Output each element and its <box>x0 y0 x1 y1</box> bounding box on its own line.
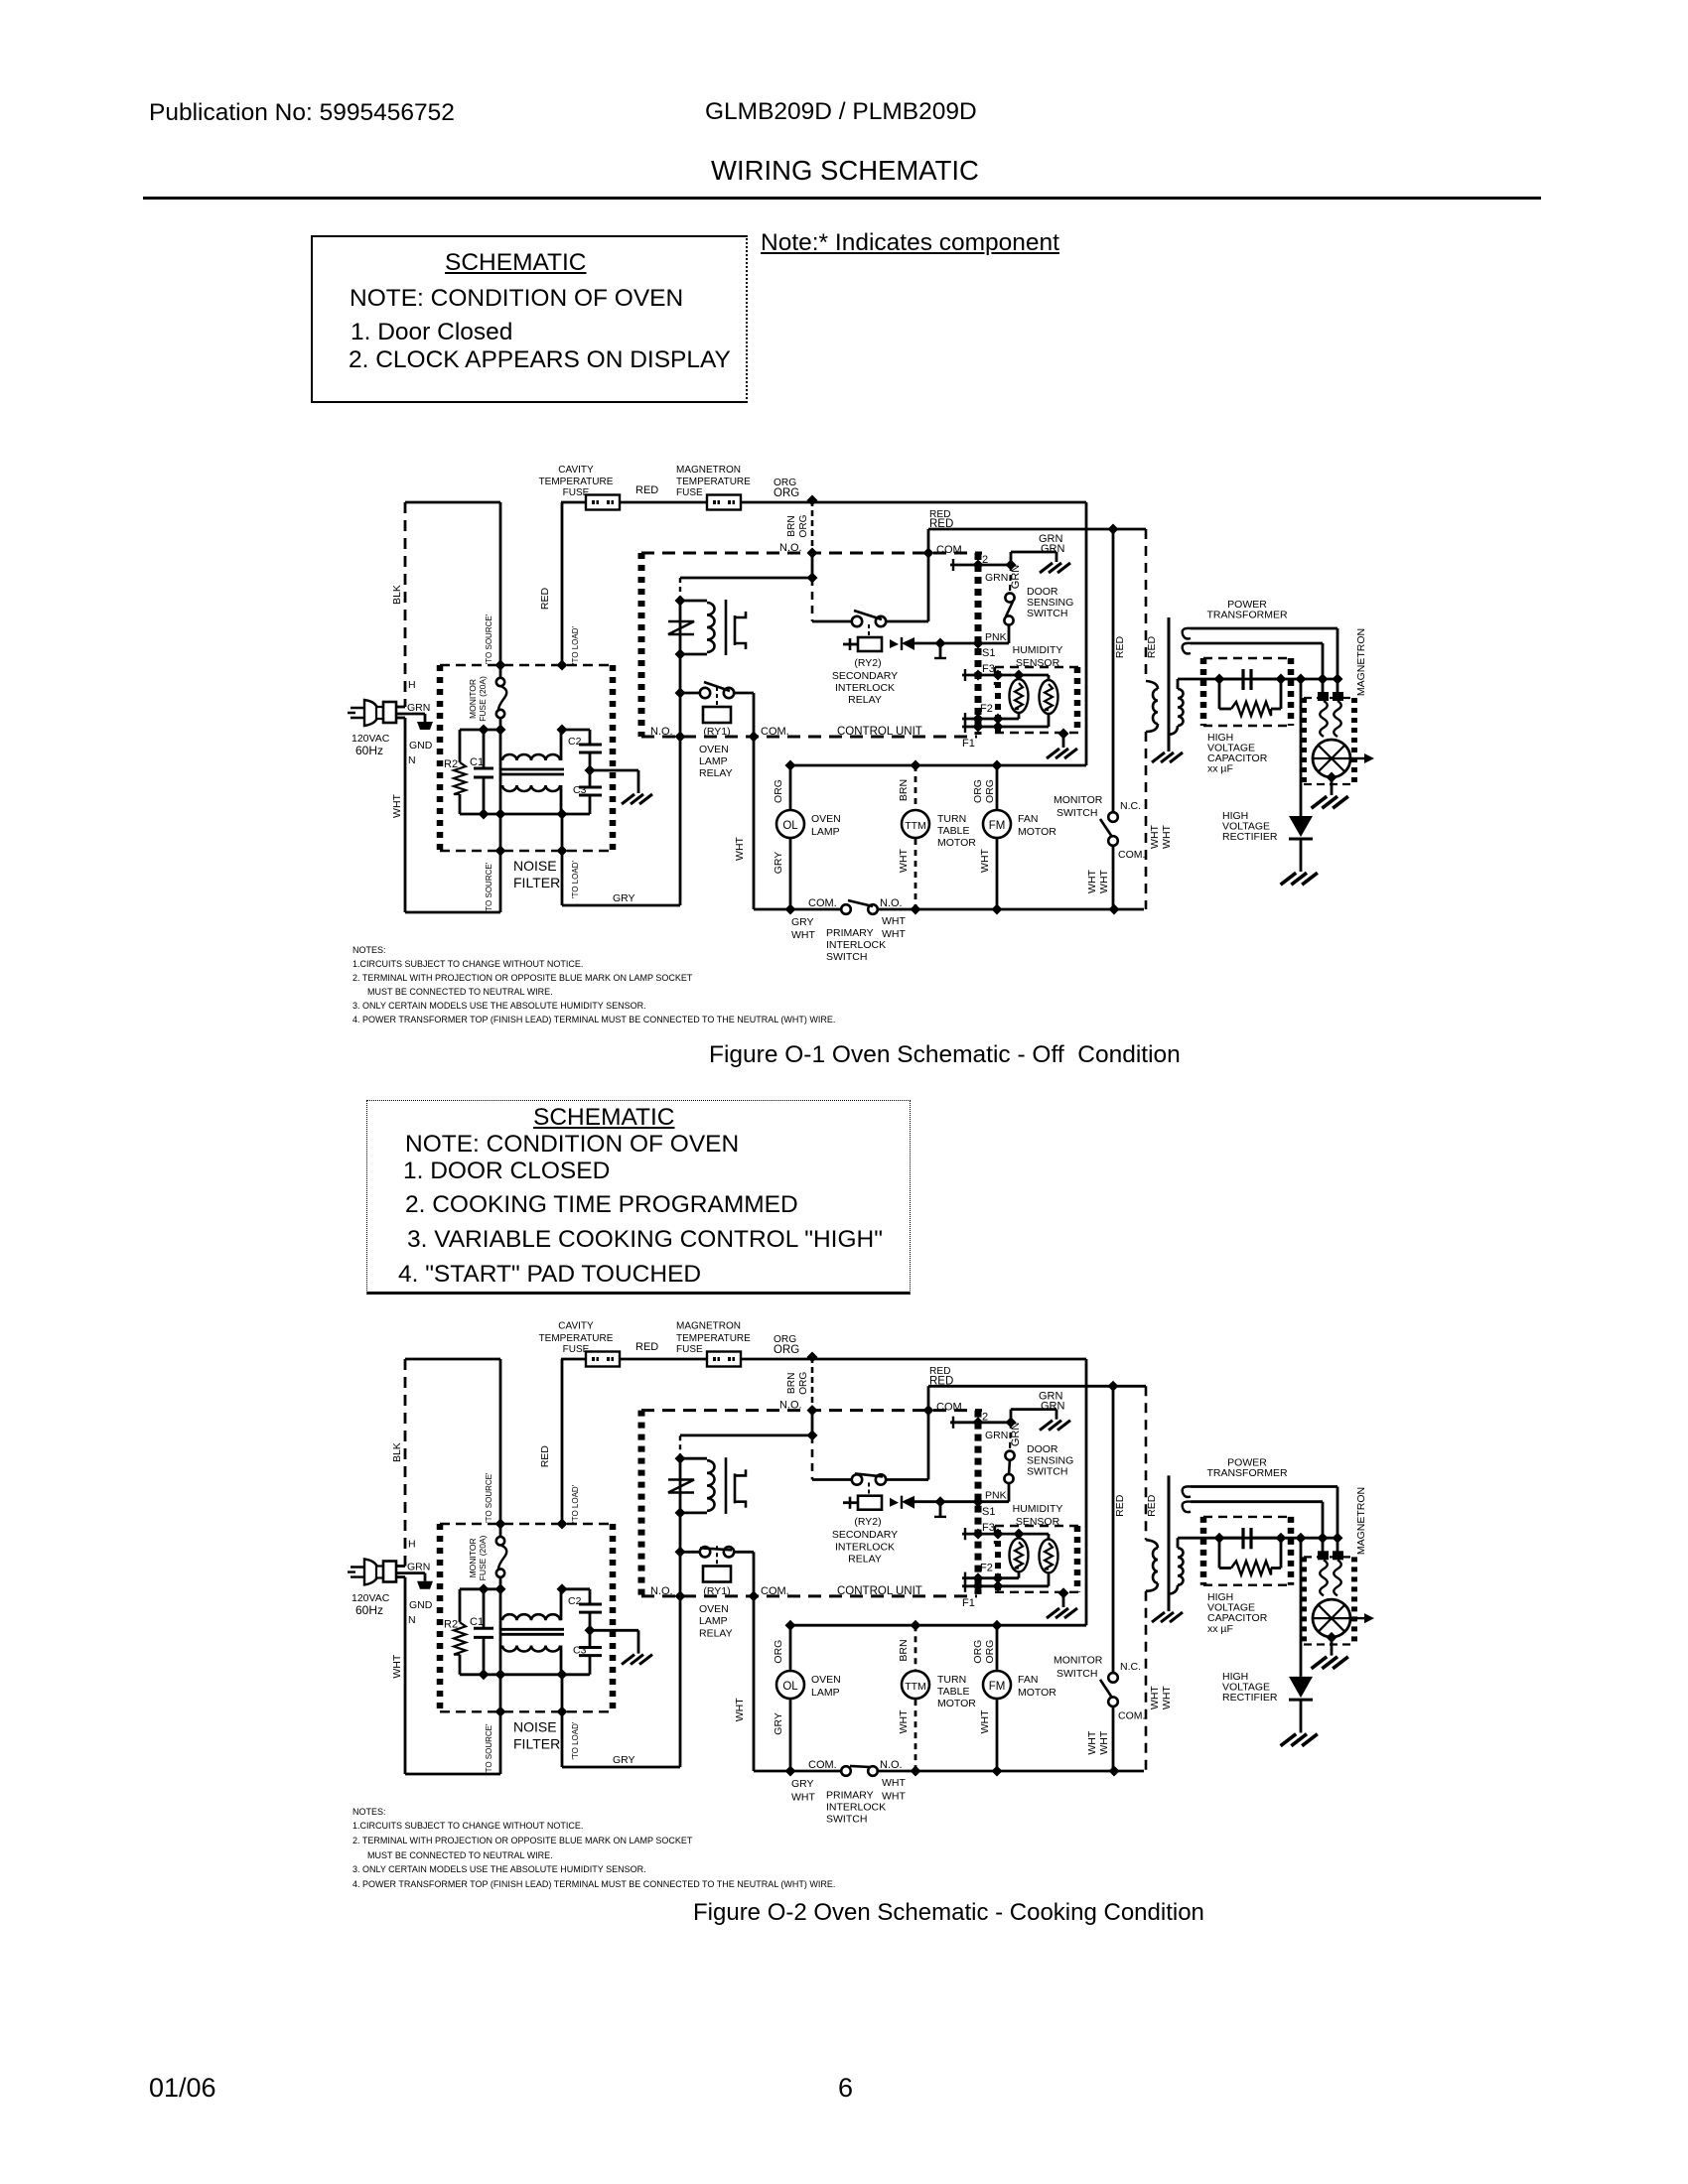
svg-text:NOISE: NOISE <box>513 1719 557 1735</box>
wire GRY segment (2) <box>562 1766 680 1769</box>
wire top supply line left (2) <box>405 1358 500 1361</box>
wire top supply line left <box>405 501 500 504</box>
svg-text:WHT: WHT <box>1086 869 1098 892</box>
svg-text:GRY: GRY <box>773 852 784 875</box>
note box schematic conditions (cooking) <box>366 1100 911 1295</box>
node BRN-ORG branch (2) <box>807 1430 818 1440</box>
connector column <box>975 553 982 735</box>
wire magnetron ground stem (2) <box>1331 1637 1334 1655</box>
node F1 a (2) <box>973 1580 984 1591</box>
footer date <box>149 2075 216 2102</box>
node FM rail (2) <box>992 1620 1003 1631</box>
svg-text:RED: RED <box>539 1445 551 1468</box>
ground door switch (2) <box>1040 1421 1070 1431</box>
wire plug N stub <box>395 717 405 720</box>
wire monitor to rail (2) <box>1112 1706 1115 1771</box>
switch monitor contact COM (2) <box>1108 1697 1118 1706</box>
svg-text:TEMPERATURE: TEMPERATURE <box>539 477 614 487</box>
svg-text:SWITCH: SWITCH <box>1027 608 1067 619</box>
svg-text:H: H <box>408 1538 416 1550</box>
svg-text:RED: RED <box>539 587 551 610</box>
transformer filament winding <box>1183 628 1191 639</box>
turntable motor TTM (2) <box>902 1671 929 1699</box>
thermistor left (2) <box>1010 1538 1029 1571</box>
filter transformer core (2) <box>500 1628 564 1631</box>
svg-text:TEMPERATURE: TEMPERATURE <box>676 1333 751 1344</box>
ground humidity sensor (2) <box>1047 1608 1077 1618</box>
filter transformer winding bottom <box>499 760 502 814</box>
wire to-source vertical upper (2) <box>499 1359 502 1524</box>
svg-text:'TO SOURCE': 'TO SOURCE' <box>485 1723 493 1774</box>
svg-text:RECTIFIER: RECTIFIER <box>1222 831 1278 843</box>
svg-text:COM.: COM. <box>808 897 837 909</box>
wire to-source vertical lower (2) <box>499 1675 502 1774</box>
wire FM upper (2) <box>996 1625 999 1670</box>
noise filter box (2) <box>440 1523 613 1525</box>
wire PNK line <box>940 642 1009 645</box>
node COM top (2) <box>923 1405 934 1416</box>
control unit box bottom edge (2) <box>641 1594 977 1597</box>
connector column 2 <box>995 671 1001 735</box>
svg-text:WHT: WHT <box>1161 1686 1173 1709</box>
svg-text:GRY: GRY <box>791 1778 814 1790</box>
switch RY1 contact left <box>700 688 710 698</box>
svg-text:MONITOR: MONITOR <box>468 679 478 719</box>
svg-text:ORG: ORG <box>773 779 784 803</box>
wire RED RED line <box>928 528 1146 531</box>
node HV cap left <box>1214 674 1225 685</box>
relay RY1 coil box <box>703 707 731 723</box>
wire filament drop 2 <box>1322 643 1325 693</box>
capacitor HV <box>1219 678 1243 681</box>
svg-text:PNK: PNK <box>985 1490 1007 1502</box>
svg-text:'TO LOAD': 'TO LOAD' <box>571 626 580 665</box>
svg-text:FUSE: FUSE <box>563 487 590 498</box>
ground transformer <box>1152 752 1183 762</box>
svg-text:BRN: BRN <box>898 779 910 801</box>
wire FM lower <box>996 839 999 909</box>
wire filter ground branch (2) <box>590 1629 638 1632</box>
ground humidity sensor <box>1047 749 1077 758</box>
svg-text:F1: F1 <box>962 1597 975 1609</box>
wire COM vertical (2) <box>927 1386 930 1410</box>
node N.O. top (2) <box>807 1405 818 1416</box>
transformer core (2) <box>1168 1475 1171 1611</box>
wire TTM lower <box>914 839 917 909</box>
wire thermistor left bottom (2) <box>1018 1572 1021 1578</box>
link RY1 blade-coil (2) <box>716 1546 718 1566</box>
switch primary interlock contact right <box>868 904 878 914</box>
svg-text:F2: F2 <box>980 1563 993 1574</box>
node relay coil top <box>675 596 686 607</box>
svg-text:MONITOR: MONITOR <box>468 1538 478 1577</box>
control unit box left edge (2) <box>638 1411 645 1596</box>
wire motor rail (2) <box>790 1624 1086 1627</box>
svg-text:MOTOR: MOTOR <box>937 837 976 849</box>
wire filter ground branch <box>590 769 638 772</box>
caption figure O-1 <box>709 1043 1181 1068</box>
svg-text:RED: RED <box>1114 1494 1126 1517</box>
svg-text:R2: R2 <box>444 758 458 770</box>
wire TTM upper (2) <box>914 1625 917 1670</box>
svg-text:'TO SOURCE': 'TO SOURCE' <box>485 1472 493 1523</box>
svg-text:ORG: ORG <box>774 487 799 499</box>
relay coil RY1 symbol (2) <box>680 1457 707 1460</box>
wire bottom rail right (2) <box>878 1770 1144 1773</box>
capacitor C3 (2) <box>589 1630 592 1647</box>
svg-text:SECONDARY: SECONDARY <box>832 670 898 682</box>
switch RY2 contact right (2) <box>876 1474 886 1484</box>
node ORG ORG junction <box>807 495 818 506</box>
svg-text:ORG: ORG <box>972 1640 984 1664</box>
svg-text:INTERLOCK: INTERLOCK <box>826 939 886 951</box>
svg-text:GRN: GRN <box>1010 565 1022 590</box>
svg-text:C1: C1 <box>470 756 484 768</box>
switch RY1 blade <box>704 682 730 691</box>
svg-text:MOTOR: MOTOR <box>1018 826 1056 838</box>
notes list schematic 2 <box>352 1808 386 1817</box>
terminal F2 <box>962 718 1019 721</box>
svg-text:INTERLOCK: INTERLOCK <box>835 682 895 694</box>
header publication number <box>149 101 455 126</box>
wire filament lead 2 <box>1191 642 1323 645</box>
svg-text:COM.: COM. <box>936 1402 965 1414</box>
switch primary interlock blade <box>848 900 873 906</box>
svg-text:FAN: FAN <box>1018 1674 1038 1686</box>
magnetron filament terminal pads (2) <box>1318 1551 1329 1560</box>
fuse cavity temperature <box>586 495 620 510</box>
node to-load row1 <box>557 725 568 736</box>
svg-text:SENSOR: SENSOR <box>1016 1516 1060 1528</box>
wire bottom rail right <box>878 908 1144 911</box>
ground HV rectifier (2) <box>1281 1734 1318 1746</box>
terminal stub RY2 <box>939 643 942 657</box>
svg-text:RELAY: RELAY <box>699 767 733 779</box>
svg-text:TABLE: TABLE <box>937 825 969 837</box>
svg-text:WHT: WHT <box>979 1709 991 1733</box>
svg-text:MOTOR: MOTOR <box>937 1698 976 1709</box>
wire BLK left vertical (2) <box>404 1359 407 1567</box>
svg-text:SECONDARY: SECONDARY <box>832 1529 898 1541</box>
thermistor right <box>1048 675 1051 681</box>
node F2 a <box>973 714 984 725</box>
wire OL upper <box>789 765 792 809</box>
node row2 main <box>495 809 506 820</box>
svg-text:F2: F2 <box>980 703 993 715</box>
switch RY2 blade <box>854 611 882 619</box>
filter transformer winding top (2) <box>499 1589 502 1620</box>
magnetron box <box>1304 697 1354 699</box>
wire OL lower (2) <box>789 1700 792 1771</box>
node humidity ground <box>1058 729 1069 740</box>
node rail monitor (2) <box>1109 1766 1120 1777</box>
wire left loop bottom <box>405 911 500 914</box>
svg-text:C3: C3 <box>573 784 587 796</box>
switch monitor blade (2) <box>1100 1680 1112 1698</box>
wire filament drop 1 (2) <box>1336 1487 1339 1553</box>
svg-text:xx µF: xx µF <box>1207 1623 1233 1635</box>
capacitor C2 (2) <box>589 1589 592 1604</box>
svg-text:N.O.: N.O. <box>880 1759 903 1771</box>
resistor HV bleeder (2) <box>1218 1538 1221 1568</box>
svg-text:N: N <box>408 1614 416 1626</box>
diode RY2 <box>902 637 914 650</box>
svg-text:RECTIFIER: RECTIFIER <box>1222 1692 1278 1704</box>
wire D2 to door switch <box>978 564 1011 567</box>
svg-text:RELAY: RELAY <box>699 1627 733 1639</box>
control unit box top edge <box>641 552 982 555</box>
terminal F1 (2) <box>962 1584 1049 1587</box>
wire filament drop 1 <box>1336 628 1339 693</box>
svg-text:'TO SOURCE': 'TO SOURCE' <box>485 862 493 912</box>
fan motor FM (2) <box>983 1671 1011 1699</box>
switch RY2 blade (2) <box>855 1473 883 1476</box>
svg-text:CAVITY: CAVITY <box>558 465 594 476</box>
svg-text:ORG: ORG <box>984 779 996 803</box>
svg-text:ORG: ORG <box>972 779 984 803</box>
noise filter box <box>440 664 613 666</box>
svg-text:FILTER: FILTER <box>513 875 560 890</box>
link RY2 blade-coil <box>868 624 870 637</box>
humidity sensor box (2) <box>995 1525 1080 1527</box>
svg-text:FUSE (20A): FUSE (20A) <box>478 1535 488 1580</box>
wire RED between fuses <box>620 501 707 504</box>
svg-text:INTERLOCK: INTERLOCK <box>835 1541 895 1553</box>
svg-text:FILTER: FILTER <box>513 1736 560 1752</box>
wire row1 <box>460 729 500 732</box>
svg-text:C2: C2 <box>568 1595 582 1607</box>
wire door switch drop <box>1010 565 1011 593</box>
svg-text:WHT: WHT <box>1149 824 1161 848</box>
turntable motor TTM <box>902 810 929 838</box>
magnetron tube (2) <box>1313 1599 1350 1637</box>
switch RY2 contact left (2) <box>852 1474 862 1484</box>
magnetron filament coils <box>1320 701 1328 737</box>
node to-source top <box>495 660 506 671</box>
svg-text:WHT: WHT <box>791 1791 815 1803</box>
filter transformer winding top <box>499 730 502 760</box>
wire RED monitor vertical (2) <box>1112 1386 1115 1673</box>
svg-text:WHT: WHT <box>979 848 991 872</box>
node row2 right (2) <box>557 1669 568 1680</box>
wire COM to RY2 <box>927 553 930 621</box>
node filter row1 main <box>495 725 506 736</box>
relay RY2 coil box <box>858 637 882 651</box>
node BRN-ORG branch <box>807 573 818 584</box>
fuse magnetron temperature (2) <box>707 1352 741 1367</box>
wire BRN-ORG vertical (2) <box>811 1357 814 1411</box>
fuse cavity temperature (2) <box>586 1352 620 1367</box>
svg-text:GRN: GRN <box>1041 543 1065 555</box>
wire fuse line start <box>561 501 586 504</box>
svg-text:HUMIDITY: HUMIDITY <box>1013 1503 1063 1515</box>
svg-text:BLK: BLK <box>391 585 403 605</box>
wire fuse line to motor-branch corner <box>741 501 1086 504</box>
node F1 a <box>973 722 984 733</box>
svg-text:GRN: GRN <box>1041 1401 1065 1413</box>
transformer primary winding (2) <box>1146 1540 1158 1548</box>
switch RY1 blade (2) <box>700 1548 732 1550</box>
wire PNK line (2) <box>940 1500 1009 1503</box>
wire RED vertical (2) <box>561 1359 564 1524</box>
terminal F3 (2) <box>962 1533 1049 1536</box>
wire COM vertical <box>927 529 930 553</box>
switch RY1 contact right <box>724 688 734 698</box>
wire WHT drop to rail <box>753 737 756 909</box>
svg-text:120VAC: 120VAC <box>352 1592 390 1604</box>
node rail TTM (2) <box>911 1766 921 1777</box>
wire RY1 output <box>734 692 754 695</box>
svg-text:WHT: WHT <box>1098 869 1110 892</box>
svg-text:TTM: TTM <box>905 1681 926 1693</box>
node HV cap right (2) <box>1276 1533 1287 1544</box>
svg-text:RELAY: RELAY <box>848 1554 882 1566</box>
ground noise filter <box>622 794 652 804</box>
wire row1 right <box>562 729 590 732</box>
node RY2 output (2) <box>935 1496 946 1507</box>
wire GRY segment <box>562 904 680 907</box>
wire bottom rail left <box>754 908 841 911</box>
wire filament lead 1 (2) <box>1191 1485 1337 1488</box>
svg-text:RED: RED <box>635 1341 658 1353</box>
node to-load top (2) <box>557 1519 568 1530</box>
svg-text:S1: S1 <box>982 647 995 659</box>
svg-text:OVEN: OVEN <box>811 813 841 825</box>
switch RY1 contact right (2) <box>724 1547 734 1557</box>
node COM. bottom <box>749 732 760 743</box>
svg-text:LAMP: LAMP <box>699 1615 728 1627</box>
svg-text:GRY: GRY <box>613 1754 635 1766</box>
svg-text:TEMPERATURE: TEMPERATURE <box>676 477 751 487</box>
node filament drop 1 (2) <box>1333 1533 1343 1544</box>
node row2 right <box>557 809 568 820</box>
svg-text:OVEN: OVEN <box>699 1603 729 1615</box>
svg-text:RED: RED <box>1114 635 1126 658</box>
wire monitor to rail <box>1112 845 1115 909</box>
svg-text:FUSE (20A): FUSE (20A) <box>478 676 488 722</box>
note indicates component <box>761 231 1059 256</box>
svg-text:COM.: COM. <box>936 544 965 556</box>
node rail TTM <box>911 904 921 915</box>
wire FM upper <box>996 765 999 809</box>
node to-load row1 (2) <box>557 1583 568 1594</box>
svg-text:N.C.: N.C. <box>1120 1661 1141 1673</box>
wire relay top horizontal (2) <box>680 1434 812 1437</box>
magnetron box (2) <box>1304 1556 1354 1558</box>
wire FM lower (2) <box>996 1700 999 1771</box>
magnetron antenna <box>1350 757 1364 759</box>
svg-text:'TO LOAD': 'TO LOAD' <box>571 1484 580 1523</box>
svg-text:ORG: ORG <box>774 1344 799 1356</box>
svg-text:GRN: GRN <box>985 572 1008 584</box>
svg-text:SWITCH: SWITCH <box>1027 1465 1067 1477</box>
svg-text:GRY: GRY <box>773 1712 784 1735</box>
svg-text:FUSE: FUSE <box>676 1344 703 1355</box>
header model numbers <box>705 100 977 125</box>
wire BRN-ORG vertical <box>811 500 814 553</box>
svg-text:FM: FM <box>989 820 1006 832</box>
svg-text:LAMP: LAMP <box>699 755 728 767</box>
svg-text:WHT: WHT <box>1149 1686 1161 1709</box>
svg-text:GND: GND <box>409 1599 433 1611</box>
svg-text:R2: R2 <box>444 1618 458 1630</box>
wire humidity ground stem (2) <box>1062 1593 1065 1607</box>
svg-text:'TO LOAD': 'TO LOAD' <box>571 861 580 899</box>
wire door switch to PNK <box>1008 624 1011 643</box>
link RY1 blade-coil <box>716 687 718 707</box>
svg-text:'TO SOURCE': 'TO SOURCE' <box>485 614 493 664</box>
wire plug N stub (2) <box>395 1575 405 1578</box>
svg-text:MAGNETRON: MAGNETRON <box>1355 1487 1367 1555</box>
wire HV rectifier drop (2) <box>1300 1538 1303 1677</box>
diode HV rectifier (2) <box>1289 1677 1313 1698</box>
svg-text:TEMPERATURE: TEMPERATURE <box>539 1333 614 1344</box>
wire thermistor left bottom <box>1018 713 1021 719</box>
node F2 b (2) <box>993 1572 1004 1583</box>
svg-text:FM: FM <box>989 1681 1006 1693</box>
svg-text:GRN: GRN <box>407 702 430 714</box>
node RED monitor top (2) <box>1108 1381 1119 1392</box>
node door switch top (2) <box>1006 1417 1017 1428</box>
control unit box left edge <box>638 553 645 737</box>
node COM. bottom (2) <box>749 1590 760 1601</box>
svg-text:N.C.: N.C. <box>1120 800 1141 812</box>
wire filament lead 2 (2) <box>1191 1500 1323 1503</box>
svg-text:N.O.: N.O. <box>779 542 802 554</box>
wire motor rail <box>790 764 1086 767</box>
svg-text:RED: RED <box>1146 635 1158 658</box>
svg-text:COM.: COM. <box>808 1759 837 1771</box>
oven lamp OL (2) <box>776 1671 804 1699</box>
magnetron filament coils (2) <box>1320 1560 1328 1595</box>
node C1 row1 <box>479 725 490 736</box>
svg-text:GRN: GRN <box>985 1430 1008 1441</box>
node filter row1 main (2) <box>495 1583 506 1594</box>
svg-text:FUSE: FUSE <box>676 487 703 498</box>
fuse magnetron temperature <box>707 495 741 510</box>
node rail monitor <box>1109 904 1120 915</box>
node humidity ground (2) <box>1058 1587 1069 1598</box>
wire fuse line start (2) <box>561 1358 586 1361</box>
node RED monitor top <box>1108 524 1119 535</box>
wire bottom rail left (2) <box>754 1770 841 1773</box>
ground magnetron <box>1312 796 1348 808</box>
diode RY2 (2) <box>902 1496 914 1509</box>
switch door contact top (2) <box>1005 1451 1014 1460</box>
svg-text:SWITCH: SWITCH <box>826 951 867 963</box>
transformer filament winding (2) <box>1183 1486 1191 1497</box>
node rail FM <box>992 904 1003 915</box>
monitor fuse (2) <box>499 1524 502 1537</box>
svg-text:CONTROL UNIT: CONTROL UNIT <box>837 1585 922 1597</box>
connector column 2 (2) <box>995 1530 1001 1594</box>
node RY2 output <box>935 638 946 649</box>
svg-text:TURN: TURN <box>937 813 966 825</box>
node to-source top (2) <box>495 1519 506 1530</box>
svg-text:ORG: ORG <box>984 1640 996 1664</box>
svg-text:SWITCH: SWITCH <box>826 1814 867 1826</box>
relay RY2 coil box (2) <box>858 1496 882 1510</box>
switch primary interlock contact left (2) <box>841 1766 851 1776</box>
wire RY1 stub <box>680 692 700 695</box>
wire motor feed right edge (2) <box>1085 1359 1088 1625</box>
wire magnetron ground stem <box>1331 777 1334 795</box>
svg-text:NOISE: NOISE <box>513 858 557 874</box>
resistor R2 (2) <box>459 1589 462 1622</box>
wire relay vertical <box>679 601 682 905</box>
svg-text:60Hz: 60Hz <box>355 1603 383 1617</box>
svg-text:PRIMARY: PRIMARY <box>826 927 874 939</box>
